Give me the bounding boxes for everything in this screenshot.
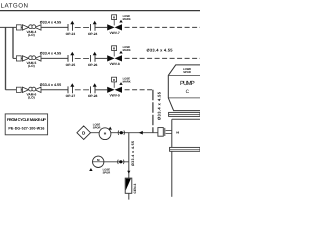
wire row3 dashed line to corner (125, 89, 153, 91)
title border line (0, 10, 200, 12)
callout box FROM CYCLE MAKE-UP (5, 114, 47, 135)
svg-text:(LO): (LO) (28, 33, 35, 37)
flange plate lower (170, 147, 200, 151)
wire row2 pipe to valve (96, 57, 108, 59)
spool box row3 (16, 87, 21, 92)
pump PUMP C casing outline (168, 65, 200, 111)
vessel top edge (172, 118, 200, 120)
pump internal strip line lower (168, 97, 200, 99)
svg-text:MARK: MARK (123, 80, 131, 83)
wire row1 dashed spool (75, 26, 89, 28)
svg-text:C: C (186, 89, 190, 95)
flow arrow left on line A (139, 131, 143, 135)
svg-text:Ø33.4 x 4.55: Ø33.4 x 4.55 (40, 51, 61, 55)
svg-text:(LO): (LO) (28, 96, 35, 100)
node D diamond (77, 126, 91, 140)
svg-text:OP-24: OP-24 (88, 32, 98, 36)
svg-text:FROM CYCLE MAKE-UP: FROM CYCLE MAKE-UP (7, 117, 46, 122)
wire row2 dashed line to edge (125, 57, 200, 59)
svg-text:LATGON: LATGON (1, 2, 29, 9)
svg-text:Ø33.4 x 4.55: Ø33.4 x 4.55 (147, 48, 174, 53)
svg-text:(LO): (LO) (28, 64, 35, 68)
valve VWV-7 (107, 15, 131, 35)
valve VWV-8 (107, 46, 131, 66)
svg-text:OP-23: OP-23 (66, 32, 76, 36)
svg-text:OP-28: OP-28 (88, 94, 98, 98)
svg-text:CEN-3: CEN-3 (133, 183, 137, 193)
wire vertical line B (128, 133, 130, 178)
svg-text:SPOR: SPOR (183, 71, 191, 74)
svg-text:Ø33.4 x 4.55: Ø33.4 x 4.55 (157, 91, 162, 120)
wire row1 dashed line to edge (125, 26, 200, 28)
instrument circle PI-1 (99, 128, 111, 140)
svg-text:Ø33.4 x 4.55: Ø33.4 x 4.55 (131, 141, 135, 166)
wire row1 left pipe (0, 26, 22, 28)
wire row3 dashed spool (75, 89, 89, 91)
svg-text:OP-26: OP-26 (88, 63, 98, 67)
valve VAM-5 (LO) (22, 56, 41, 68)
svg-text:D: D (82, 130, 85, 135)
wire row3 left pipe (6, 89, 23, 91)
vessel left wall upper (171, 119, 173, 147)
svg-text:HI: HI (176, 131, 179, 135)
instrument circle M-2 (93, 156, 104, 167)
valve VAM-4 (LO) (22, 25, 41, 38)
svg-text:PUMP: PUMP (180, 80, 195, 87)
svg-text:Ø33.4 x 4.55: Ø33.4 x 4.55 (40, 20, 61, 24)
wire line from M-2 to line B (104, 161, 129, 163)
svg-text:VWV-7: VWV-7 (109, 31, 119, 35)
node OP-28 break ticks (88, 83, 98, 98)
svg-text:Ø33.4 x 4.55: Ø33.4 x 4.55 (40, 83, 61, 87)
wire row2 dashed spool (75, 57, 89, 59)
wire row3 vertical leg down to pump suction (152, 90, 154, 133)
svg-text:MARK: MARK (123, 18, 131, 21)
node OP-24 break ticks (88, 21, 98, 36)
svg-text:MARK: MARK (123, 49, 131, 52)
svg-text:OP-27: OP-27 (66, 94, 76, 98)
wire header vertical V2 (12, 27, 14, 58)
svg-text:VWV-8: VWV-8 (109, 62, 119, 66)
strainer CEN-3 (125, 178, 137, 193)
wire row2 left pipe (13, 57, 22, 59)
pump internal strip line upper (168, 74, 200, 76)
svg-text:SPOR: SPOR (93, 127, 101, 130)
valve small globe on line A (118, 131, 124, 135)
valve small globe on M-2 line (118, 160, 124, 164)
svg-text:PE-DG-527-100-W16: PE-DG-527-100-W16 (8, 127, 44, 131)
svg-text:VWV-9: VWV-9 (109, 93, 119, 97)
label LOWE SPOR strip text (183, 68, 191, 74)
flange plate upper (169, 112, 200, 116)
vessel left wall lower (171, 151, 173, 197)
spool box row2 (16, 56, 21, 61)
wire row1 pipe to OP markers (41, 26, 68, 28)
node OP-25 break ticks (66, 52, 76, 67)
wire row3 pipe to OP markers (41, 89, 68, 91)
flow arrow up at circle M-2 (89, 168, 92, 171)
valve VAM-6 (LO) (22, 87, 41, 100)
node OP-23 break ticks (66, 21, 76, 36)
node OP-27 break ticks (66, 83, 76, 98)
node OP-26 break ticks (88, 52, 98, 67)
wire bottom line A diamond to nozzle (91, 132, 158, 134)
flow arrow down on line B (127, 171, 130, 174)
wire header vertical V1 (5, 27, 7, 89)
svg-text:OP-25: OP-25 (66, 63, 76, 67)
valve VWV-9 (107, 77, 131, 97)
nozzle fitting into vessel (158, 128, 172, 137)
wire row3 pipe to valve (96, 89, 108, 91)
wire line B below strainer (128, 193, 130, 199)
flow arrow up at circle PI-1 (109, 127, 112, 130)
svg-text:SPOR: SPOR (103, 172, 111, 175)
wire row2 pipe to OP markers (41, 57, 68, 59)
wire row1 pipe to valve (96, 26, 108, 28)
spool box row1 (16, 25, 21, 30)
